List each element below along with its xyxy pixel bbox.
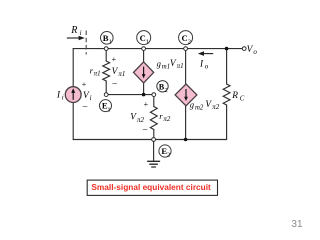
wire top to RC [226,49,228,84]
label Io [199,59,209,70]
svg-text:+: + [144,100,149,109]
terminal Vo open circle [242,47,246,51]
svg-text:m2: m2 [195,104,204,111]
node label B1 [101,32,114,46]
label gm1Vpi1 [157,58,184,70]
wire r_pi2 to bottom [153,130,155,138]
node label E1 [100,100,112,114]
wire bottom rail [73,139,226,141]
svg-text:π2: π2 [137,116,145,124]
wire left branch upper [72,49,74,87]
arrow Ri [67,36,85,41]
wire ground stem [153,141,155,161]
wire RC to bottom [226,105,228,140]
node C2 open circle [184,47,188,51]
dashed cut line for Ri [85,31,87,55]
node C1 open circle [142,47,146,51]
current source Ii [65,87,81,103]
node dot junction diamond2-bottom [184,138,188,142]
caption box [87,180,217,195]
svg-text:2: 2 [188,39,191,46]
svg-text:π1: π1 [94,69,101,77]
dependent source gm2Vpi2 diamond [175,84,197,106]
svg-text:R: R [70,25,77,36]
node E1 open circle [104,93,108,97]
node E2 open circle [152,138,156,142]
svg-text:C: C [240,95,245,102]
svg-text:o: o [205,62,209,70]
arrow Io [198,51,213,56]
svg-text:m1: m1 [162,63,170,70]
resistor RC zigzag [223,84,230,105]
label r_pi1 [90,65,101,77]
svg-text:C: C [140,33,146,43]
svg-text:π1: π1 [118,70,125,78]
svg-text:–: – [142,124,148,134]
node label B2 [157,81,168,94]
node dot junction diamond1-bottom [142,93,146,97]
node label E2 [159,145,171,159]
svg-text:i: i [62,93,64,101]
label Ii [56,90,64,101]
svg-text:I: I [56,90,61,100]
label gm2Vpi2 [190,99,220,111]
svg-text:1: 1 [146,39,149,46]
resistor r_pi1 zigzag [103,61,110,81]
svg-text:1: 1 [107,106,110,113]
svg-text:+: + [82,80,87,89]
svg-text:2: 2 [165,87,168,94]
svg-text:–: – [82,100,88,110]
svg-text:R: R [231,91,238,101]
node B1 open circle [104,47,108,51]
svg-text:–: – [111,78,117,88]
svg-text:I: I [199,59,204,69]
node B2 open circle [152,93,156,97]
svg-text:i: i [80,29,82,37]
svg-text:π2: π2 [163,115,171,123]
svg-text:Small-signal equivalent circui: Small-signal equivalent circuit [91,182,211,192]
wire diamond1 to node [143,83,145,95]
wire B1 to r_pi1 [105,50,107,61]
svg-text:2: 2 [167,152,170,159]
wire top rail [73,48,242,50]
wire B2 down to r_pi2 [153,96,155,106]
label RC [231,91,245,102]
svg-text:i: i [90,94,92,102]
svg-text:31: 31 [291,219,303,230]
label V_pi1 with polarity [111,55,125,87]
node dot junction RC-top [225,47,229,51]
label r_pi2 [159,111,171,123]
wire C1 to diamond1 [143,50,145,62]
wire diamond2 to bottom [185,106,187,140]
wire E1-B2 [108,94,152,96]
label Ri [70,25,81,37]
wire C2 to diamond2 [185,49,187,84]
wire left branch lower [72,102,74,139]
node label C1 [137,31,151,46]
ground symbol [148,161,160,167]
svg-text:1: 1 [109,39,112,46]
svg-text:π1: π1 [177,62,184,70]
svg-text:π2: π2 [212,103,220,111]
label Vi with polarity [82,80,92,110]
svg-text:C: C [182,33,188,43]
node label C2 [179,31,193,46]
label Vo [247,45,258,56]
label V_pi2 with polarity [130,100,148,134]
dependent source gm1Vpi1 diamond [134,62,154,83]
svg-text:+: + [112,55,117,64]
svg-text:o: o [253,48,257,56]
resistor r_pi2 zigzag [150,107,157,130]
wire r_pi1 to E1 [105,81,107,93]
